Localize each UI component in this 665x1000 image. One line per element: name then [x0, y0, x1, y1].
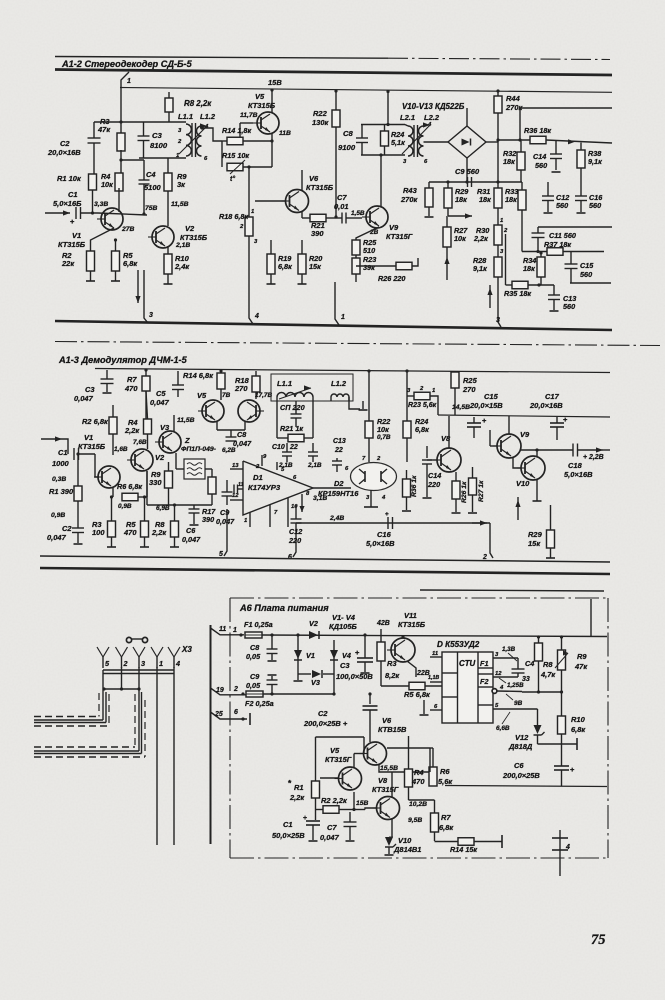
- input arrow: [45, 212, 70, 214]
- wire bottom right line y283: [570, 282, 611, 284]
- svg-text:R44: R44: [506, 94, 521, 103]
- svg-text:R18 6,8к: R18 6,8к: [219, 212, 248, 221]
- wire V9-2 base: [490, 445, 497, 447]
- wire R5-3 line: [381, 685, 409, 687]
- svg-text:КТ315Б: КТ315Б: [398, 620, 425, 629]
- A6 box right edge dash-dot: [607, 598, 609, 858]
- vertical link x591: [590, 599, 592, 636]
- wire R37 line: [522, 251, 547, 253]
- capacitor C3-2: [106, 370, 108, 379]
- capacitor C1-2 series: [73, 448, 75, 460]
- wire base line V2: [98, 213, 147, 215]
- pin 12: [230, 499, 243, 501]
- svg-text:R6: R6: [440, 767, 450, 776]
- transformer L2.1 coil: [408, 126, 413, 156]
- transistor V9-2: [497, 434, 521, 458]
- wire R5 ground stub: [115, 271, 117, 281]
- svg-text:0,047: 0,047: [233, 439, 252, 448]
- wire R1-3 leads: [315, 737, 317, 781]
- wire R14-R15 left link: [221, 141, 223, 167]
- capacitor C-2b: [312, 443, 314, 452]
- resistor R3: [117, 133, 125, 151]
- svg-text:75: 75: [591, 932, 605, 948]
- capacitor C15-2 electrolytic: [473, 417, 475, 423]
- wire R6-3 leads: [432, 748, 434, 767]
- svg-text:CTU: CTU: [459, 659, 476, 668]
- svg-text:5,6к: 5,6к: [438, 777, 453, 786]
- wire D2 ground column: [370, 490, 372, 507]
- svg-text:2: 2: [239, 224, 244, 230]
- wire C2 top to tank line: [93, 122, 95, 138]
- svg-text:V2: V2: [155, 453, 165, 462]
- svg-text:47к: 47к: [97, 125, 111, 134]
- svg-text:4: 4: [565, 844, 570, 851]
- capacitor C8 tank2: [361, 124, 363, 138]
- resistor R9: [164, 173, 172, 191]
- dead end bar line6: [249, 713, 251, 725]
- up arrow under R27: [446, 255, 448, 280]
- svg-text:3: 3: [141, 659, 145, 668]
- IC pin 11 left: [430, 656, 442, 658]
- svg-text:+: +: [482, 416, 487, 425]
- supply rail section2: [95, 369, 610, 373]
- bundle upper solid pair: [34, 719, 103, 721]
- resistor R26 horizontal: [396, 262, 412, 270]
- svg-text:0,047: 0,047: [320, 833, 340, 842]
- svg-text:7В: 7В: [222, 392, 231, 399]
- wire L2.2 to bridge left: [424, 141, 449, 143]
- svg-text:20,0×16В: 20,0×16В: [529, 401, 563, 410]
- capacitor C6-3 electrolytic: [554, 765, 569, 767]
- svg-text:С2: С2: [62, 524, 72, 533]
- svg-text:V10-V13 КД522Б: V10-V13 КД522Б: [402, 102, 465, 111]
- supply rail 15V: [120, 88, 612, 93]
- wire V6 emitter to R6 row: [429, 748, 431, 772]
- svg-text:R8: R8: [543, 660, 553, 669]
- block A1-2 top border thin line: [55, 57, 388, 59]
- A6 box bottom edge dash-dot: [230, 857, 608, 859]
- resistor R8-2: [171, 521, 179, 537]
- svg-text:F2 0,25а: F2 0,25а: [245, 699, 274, 708]
- wire R14 line: [222, 140, 227, 142]
- svg-text:18к: 18к: [455, 195, 467, 204]
- transistor V2-2: [131, 449, 153, 471]
- wire R1-2 leads: [77, 454, 79, 486]
- svg-text:С3: С3: [85, 385, 95, 394]
- wire down arrow to bottom: [137, 270, 139, 303]
- svg-text:Х3: Х3: [181, 645, 192, 654]
- svg-text:6,6В: 6,6В: [496, 725, 510, 732]
- bundle lower dashed below: [34, 756, 145, 758]
- capacitor C1 series: [75, 207, 77, 219]
- wire R22 column: [335, 91, 337, 110]
- svg-text:R2 6,8к: R2 6,8к: [82, 417, 109, 426]
- wire V5-V6 emitters: [216, 422, 218, 430]
- svg-text:С6: С6: [514, 761, 524, 770]
- wire R7-3 leads: [434, 800, 436, 813]
- IC left cell lines: [442, 672, 458, 674]
- svg-text:D2: D2: [334, 479, 344, 488]
- svg-text:С4: С4: [525, 659, 534, 668]
- svg-text:5,1к: 5,1к: [391, 138, 405, 147]
- wire R18 bottom to bend 4: [249, 236, 253, 324]
- wire R2 node to V8 base: [354, 809, 365, 811]
- resistor R8: [165, 98, 173, 112]
- resistor R2-2: [109, 417, 117, 434]
- wire R17 leads: [211, 469, 213, 477]
- svg-text:1,3В: 1,3В: [502, 646, 516, 653]
- wire L1.2 right lead down: [349, 397, 360, 409]
- svg-text:6,8к: 6,8к: [415, 425, 429, 434]
- svg-text:2: 2: [419, 386, 424, 392]
- wire C14-2 bottom: [426, 464, 428, 497]
- svg-text:V10: V10: [516, 479, 530, 488]
- wire V1 collector column x121: [120, 88, 122, 133]
- pin 10: [287, 498, 289, 527]
- wire filter leads: [176, 468, 184, 470]
- IC cell F2: [478, 673, 493, 675]
- ground L1 box: [362, 401, 364, 409]
- wire tank2 supply from rail: [387, 92, 389, 125]
- resistor R7-3: [431, 813, 439, 832]
- wire V5 emitter down: [271, 133, 273, 167]
- resistor R4-3: [405, 769, 413, 787]
- branch pin 19 to line2: [211, 688, 247, 695]
- wire C7 to V9 base: [346, 217, 362, 219]
- svg-text:0,9В: 0,9В: [51, 512, 65, 519]
- transistor V6-3: [364, 742, 387, 765]
- svg-text:V1: V1: [84, 433, 93, 442]
- svg-text:2,2к: 2,2к: [289, 793, 305, 802]
- wire L1.2 to R14 line: [202, 128, 222, 141]
- transistor V8-3: [377, 797, 400, 820]
- svg-text:0,05: 0,05: [246, 652, 261, 661]
- tick 4,2B: [380, 629, 382, 635]
- svg-text:R7: R7: [127, 375, 137, 384]
- svg-text:С14: С14: [428, 471, 441, 480]
- capacitor C14: [555, 141, 557, 154]
- svg-text:С8: С8: [343, 129, 354, 138]
- resistor R6-3: [429, 767, 437, 786]
- wire V1-2 emitter to R6: [112, 488, 114, 497]
- svg-text:R8 2,2к: R8 2,2к: [184, 99, 212, 108]
- svg-text:560: 560: [589, 201, 601, 210]
- wire D1 top pins to caps: [261, 455, 263, 466]
- svg-text:10к: 10к: [454, 234, 466, 243]
- wire R3 to R4: [120, 150, 122, 173]
- svg-text:4: 4: [254, 313, 259, 320]
- resistor R9-2: [165, 471, 173, 488]
- wire R36-2 leads: [406, 470, 408, 479]
- block A1-2 top border dash-dot right part: [388, 58, 610, 59]
- resistor R15 trimmer horizontal: [227, 163, 243, 171]
- svg-text:С3: С3: [152, 131, 163, 140]
- wire V5 collector: [353, 754, 355, 768]
- transformer L1 core: [191, 123, 193, 157]
- bridge rectifier V10-V13 diamond: [448, 126, 486, 158]
- svg-text:С2: С2: [60, 139, 70, 148]
- svg-text:270к: 270к: [400, 195, 418, 204]
- svg-text:9,1к: 9,1к: [473, 264, 487, 273]
- svg-text:С7: С7: [327, 823, 337, 832]
- svg-text:+: +: [385, 511, 389, 518]
- svg-text:С13: С13: [333, 438, 346, 445]
- svg-text:КТ315Г: КТ315Г: [372, 785, 399, 794]
- capacitor C11: [537, 227, 539, 233]
- shield box L1 dashed: [271, 374, 353, 401]
- wire R22-2 leads: [368, 371, 370, 421]
- transistor V5-2: [202, 400, 224, 422]
- wire V10 emitter ground: [536, 479, 538, 501]
- diode V1-3: [294, 650, 302, 659]
- wire V5 base: [320, 777, 339, 779]
- svg-text:С9: С9: [220, 508, 230, 517]
- resistor R22-2: [365, 421, 373, 438]
- wire R10 to C6: [561, 734, 563, 766]
- coil L1.2 s2 horizontal: [331, 394, 349, 397]
- resistor R4-2: [144, 419, 152, 434]
- svg-text:L2.1: L2.1: [400, 113, 415, 122]
- svg-text:100,0×50В: 100,0×50В: [336, 672, 373, 681]
- block A1-3 bottom rail thin: [40, 556, 610, 562]
- svg-text:V12: V12: [515, 733, 529, 742]
- svg-text:R37 18к: R37 18к: [544, 240, 571, 249]
- transistor V9: [366, 206, 388, 228]
- thin rail above A6 right: [420, 590, 604, 591]
- wire R3-3 leads: [380, 635, 382, 642]
- resistor R37 horizontal: [547, 248, 563, 256]
- svg-text:1,6В: 1,6В: [114, 446, 128, 453]
- svg-text:25: 25: [214, 711, 223, 718]
- capacitor C4: [517, 658, 519, 669]
- wire C12-2 column: [295, 505, 297, 519]
- svg-text:11: 11: [238, 482, 244, 488]
- transistor V8-2: [437, 448, 461, 472]
- X3 pin2 stem: [121, 667, 123, 689]
- branch pin 11 to line1: [211, 628, 245, 635]
- resistor R23-2 trimmer horizontal: [414, 392, 430, 400]
- svg-text:22к: 22к: [61, 259, 75, 268]
- svg-text:С9: С9: [250, 672, 260, 681]
- wire C18 out arrow: [578, 449, 604, 451]
- svg-text:С8: С8: [250, 643, 260, 652]
- svg-text:1,25В: 1,25В: [507, 682, 524, 689]
- wire column to R18: [248, 167, 250, 217]
- wire V5 emitter: [353, 792, 355, 809]
- resistor R34: [537, 257, 545, 277]
- wire R24 leads: [384, 125, 386, 132]
- wire node1 bend from top edge: [121, 72, 129, 88]
- bundle lower dashed above: [34, 746, 135, 748]
- svg-text:470: 470: [124, 384, 138, 393]
- svg-text:12: 12: [232, 493, 239, 499]
- svg-text:9,1к: 9,1к: [588, 157, 602, 166]
- resistor R1-3: [312, 781, 320, 798]
- wire R18-2 leads: [255, 371, 257, 376]
- svg-text:0,7В: 0,7В: [377, 434, 391, 441]
- svg-text:С16: С16: [377, 530, 392, 539]
- wire R27-2 leads: [472, 467, 474, 478]
- wire R29 leads: [447, 182, 449, 188]
- svg-text:R25: R25: [463, 376, 478, 385]
- svg-text:1000: 1000: [52, 459, 69, 468]
- IC cell F1: [478, 667, 493, 669]
- svg-text:390: 390: [311, 229, 324, 238]
- svg-text:R1: R1: [294, 783, 304, 792]
- svg-text:R36 18к: R36 18к: [524, 126, 551, 135]
- svg-text:+: +: [303, 815, 307, 822]
- wire R28 leads: [497, 245, 499, 257]
- transistor V1-2: [98, 466, 120, 488]
- wire R36 line: [498, 139, 530, 141]
- svg-text:КТ315Б: КТ315Б: [78, 442, 105, 451]
- capacitor C16: [575, 195, 587, 197]
- svg-text:R14 1,8к: R14 1,8к: [222, 126, 251, 135]
- wire V3 collector: [173, 415, 175, 431]
- IC pin 5: [493, 708, 538, 710]
- wire line1 to right edge: [262, 635, 607, 637]
- svg-text:5,0×16Б: 5,0×16Б: [53, 199, 81, 208]
- svg-text:19: 19: [216, 687, 224, 694]
- wire bend 3 to bottom edge: [144, 270, 148, 323]
- svg-text:6,8к: 6,8к: [278, 262, 292, 271]
- capacitor C13: [553, 285, 555, 295]
- wire R5-2 leads: [144, 497, 146, 521]
- divider dash-dot line between blocks: [55, 342, 660, 346]
- wire R7 leads: [145, 370, 147, 376]
- svg-text:V2: V2: [185, 224, 195, 233]
- svg-text:R15 10к: R15 10к: [222, 151, 249, 160]
- svg-text:0,9В: 0,9В: [118, 503, 132, 510]
- svg-text:4,7к: 4,7к: [540, 670, 556, 679]
- svg-text:4: 4: [499, 685, 504, 691]
- svg-text:V6: V6: [309, 174, 319, 183]
- svg-text:270: 270: [462, 385, 476, 394]
- resistor R22: [332, 110, 340, 127]
- capacitor C7: [341, 213, 343, 224]
- svg-text:R21 1к: R21 1к: [280, 424, 303, 433]
- transformer L1.1 coil: [186, 124, 191, 156]
- svg-text:V1- V4: V1- V4: [332, 613, 356, 622]
- wire R44 leads: [497, 91, 499, 96]
- svg-text:2: 2: [376, 456, 381, 462]
- wire detector line y182: [429, 181, 522, 183]
- wire bridge right to R44 column: [486, 141, 498, 143]
- svg-text:L1.1: L1.1: [178, 112, 193, 121]
- resistor R1-2: [74, 486, 82, 501]
- node dot line2: [241, 692, 244, 695]
- ground stub mid: [423, 700, 425, 714]
- wire V2-2 emitter line y505: [146, 471, 148, 505]
- bundle upper dashed below: [34, 725, 109, 727]
- svg-text:+: +: [355, 648, 360, 657]
- svg-text:4: 4: [175, 659, 180, 668]
- capacitor C3-3 electrolytic: [364, 635, 366, 658]
- IC pin 4 with inversion circle: [492, 689, 497, 694]
- wire 2,4B line: [296, 522, 490, 524]
- wire tank2 top line: [361, 124, 405, 126]
- wire V12 ground bar: [538, 743, 578, 745]
- svg-text:2,4к: 2,4к: [174, 262, 190, 271]
- svg-text:5: 5: [219, 551, 223, 558]
- svg-text:0,047: 0,047: [47, 533, 67, 542]
- capacitor C5-2: [177, 371, 179, 385]
- wire right end 2,4B line to node2: [472, 522, 487, 524]
- wire C2 bottom to R1: [93, 143, 95, 174]
- svg-text:5100: 5100: [144, 183, 161, 192]
- IC pin 12: [493, 676, 518, 678]
- svg-text:V2: V2: [309, 619, 318, 628]
- wire R32 leads: [520, 141, 522, 152]
- wire V11 emitter: [407, 661, 416, 677]
- svg-text:С15: С15: [580, 261, 594, 270]
- wire R35 line: [506, 284, 513, 286]
- svg-text:КТВ15В: КТВ15В: [378, 725, 407, 734]
- X3 connector pins: [97, 647, 109, 657]
- svg-text:560: 560: [563, 302, 575, 311]
- svg-text:V10: V10: [398, 836, 412, 845]
- svg-text:470: 470: [411, 777, 425, 786]
- svg-text:С2: С2: [318, 709, 328, 718]
- svg-text:8,2к: 8,2к: [385, 671, 400, 680]
- capacitor C3 tank: [143, 122, 145, 136]
- svg-text:3к: 3к: [177, 180, 186, 189]
- wire bend 1 to bottom edge: [335, 282, 339, 325]
- zener V12: [537, 709, 539, 725]
- wire V8 base: [427, 459, 437, 461]
- svg-text:15В: 15В: [356, 800, 368, 807]
- bridge bottom row: [298, 673, 311, 675]
- resistor R25(510): [352, 240, 360, 255]
- resistor R8-3: [535, 643, 543, 661]
- bundle lower solid pair: [34, 750, 139, 752]
- svg-text:0,047: 0,047: [150, 398, 170, 407]
- wire V2 emitter to R10: [167, 246, 169, 254]
- wire V5 collector to rail: [271, 90, 273, 113]
- svg-text:22: 22: [334, 447, 343, 454]
- resistor R31: [494, 188, 502, 208]
- wire V9 emitter to R25: [356, 227, 379, 240]
- resistor R5-2: [141, 521, 149, 537]
- X3 junction line: [104, 688, 139, 690]
- svg-text:11,5В: 11,5В: [171, 201, 189, 208]
- svg-text:9100: 9100: [338, 143, 356, 152]
- coil L1.1 s2 horizontal: [277, 393, 313, 398]
- svg-text:R26 220: R26 220: [378, 274, 405, 283]
- svg-text:А6 Плата питания: А6 Плата питания: [239, 603, 329, 613]
- resistor R4: [115, 173, 123, 191]
- wire R31 leads: [497, 208, 499, 225]
- resistor R32: [517, 152, 525, 170]
- wire R43 ground: [428, 182, 430, 188]
- svg-text:R27 1к: R27 1к: [478, 480, 485, 502]
- svg-text:R1 390: R1 390: [49, 487, 74, 496]
- wire R2-3 line: [316, 809, 324, 811]
- X3 double wire upper: [103, 669, 174, 671]
- fuse F1: [245, 632, 262, 638]
- wire R10 ground stub: [167, 274, 169, 284]
- pin 7: [269, 505, 271, 527]
- svg-text:КТ315Б: КТ315Б: [248, 101, 275, 110]
- svg-text:V5: V5: [330, 746, 340, 755]
- shorting plug circles: [126, 637, 131, 642]
- resistor R29-2: [547, 530, 555, 548]
- wire R26 branch: [356, 265, 398, 267]
- wire R9 R10 column: [561, 692, 563, 716]
- svg-text:100: 100: [92, 528, 105, 537]
- wire R8 leads: [168, 92, 170, 98]
- trimmer arrow R9-3: [555, 653, 568, 668]
